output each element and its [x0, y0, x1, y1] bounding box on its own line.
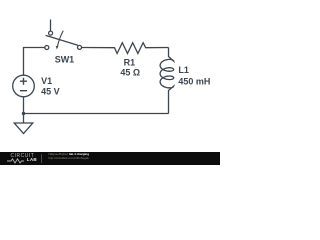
ground	[14, 114, 33, 134]
footer logo CircuitLab	[11, 154, 35, 159]
node junction	[22, 112, 25, 115]
svg-text:V1: V1	[41, 76, 52, 86]
switch SW1	[45, 20, 82, 50]
svg-text:SW1: SW1	[55, 55, 75, 65]
inductor L1	[160, 48, 174, 114]
svg-text:45 Ω: 45 Ω	[120, 68, 140, 78]
wire V1 bottom	[23, 97, 25, 114]
footer separator	[41, 154, 42, 163]
resistor R1	[82, 43, 169, 54]
svg-text:45 V: 45 V	[41, 87, 60, 97]
footer credit line 2	[48, 157, 89, 160]
svg-text:450 mH: 450 mH	[178, 76, 210, 86]
svg-text:R1: R1	[124, 57, 136, 67]
svg-text:L1: L1	[178, 65, 189, 75]
voltage source V1	[13, 75, 35, 97]
wire top-left rail	[24, 48, 45, 76]
footer credit line 1	[48, 153, 89, 156]
footer bar	[0, 152, 220, 165]
wire bottom rail	[24, 113, 169, 115]
